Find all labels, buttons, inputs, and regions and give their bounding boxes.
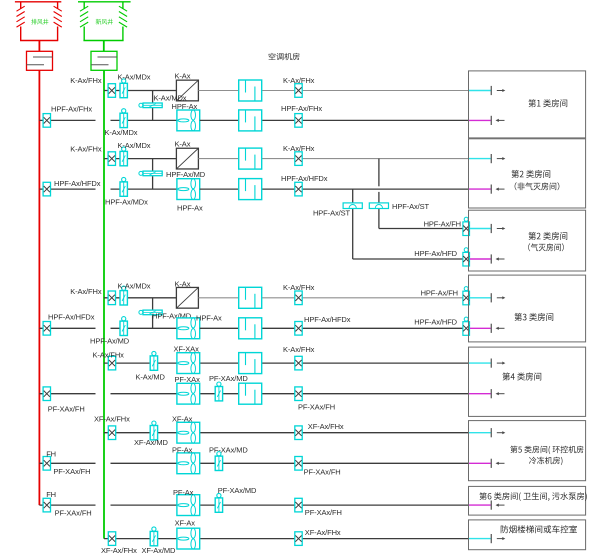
svg-text:HPF-Ax: HPF-Ax	[177, 204, 203, 213]
silencer row1	[239, 80, 262, 101]
exhaust terminal room5	[469, 459, 505, 468]
silencer row4	[239, 179, 262, 200]
svg-text:K-Ax: K-Ax	[175, 72, 191, 81]
svg-text:XF-Ax: XF-Ax	[175, 518, 196, 527]
svg-text:K-Ax/FHx: K-Ax/FHx	[93, 351, 125, 360]
fan PF-Ax system5	[172, 446, 200, 474]
duct row6 after green trunk	[111, 327, 177, 329]
svg-text:K-Ax/FHx: K-Ax/FHx	[283, 345, 315, 354]
svg-text:XF-Ax/FHx: XF-Ax/FHx	[101, 546, 137, 555]
fire damper XF-Ax/FHx row9	[94, 415, 130, 440]
fire damper K-Ax/FHx row5	[70, 287, 115, 305]
duct row6 fan to room	[200, 327, 469, 329]
duct branch to room2b exhaust	[353, 258, 469, 260]
fire damper XF-Ax/FHx row13	[101, 532, 137, 555]
duct row10 red trunk segment	[39, 462, 95, 464]
junction vertical system1	[152, 91, 154, 121]
fan HPF-Ax system1	[172, 102, 200, 131]
supply terminal room5	[469, 428, 506, 437]
svg-text:HPF-Ax/MD: HPF-Ax/MD	[166, 170, 206, 179]
fire damper HPF-Ax/HFD room3 exhaust	[414, 317, 469, 335]
duct row1 K box to room	[198, 90, 468, 92]
svg-text:K-Ax/MD: K-Ax/MD	[136, 373, 166, 382]
fire damper PF-XAx/FH row12 right	[295, 498, 342, 517]
motorised damper XF-Ax/MD row13	[142, 527, 176, 555]
svg-text:HPF-Ax/FHx: HPF-Ax/FHx	[51, 105, 92, 114]
svg-text:PF-XAx/FH: PF-XAx/FH	[48, 405, 85, 414]
duct row3 segment green trunk to K box	[104, 158, 176, 160]
svg-text:PF-XAx/MD: PF-XAx/MD	[209, 374, 248, 383]
duct row7 green trunk to room	[104, 362, 469, 364]
svg-text:HPF-Ax/ST: HPF-Ax/ST	[313, 209, 351, 218]
supply terminal room1	[469, 86, 506, 95]
svg-text:HPF-Ax/FH: HPF-Ax/FH	[424, 220, 461, 229]
fire damper HPF-Ax/FHx row2 right	[281, 104, 322, 127]
motorised damper XF-Ax/MD row9	[134, 421, 168, 447]
svg-text:K-Ax/MDx: K-Ax/MDx	[118, 141, 151, 150]
motorised damper HPF-Ax/MD on junction system2	[139, 170, 206, 179]
motorised damper PF-XAx/MD row10	[209, 446, 248, 471]
silencer row7	[239, 353, 262, 374]
motorised damper K-Ax/MDx row5	[118, 282, 151, 306]
duct row10 after green trunk	[111, 462, 469, 464]
duct row9 green trunk to room	[104, 432, 469, 434]
fire damper PF-XAx/FH row10 right	[295, 457, 341, 477]
svg-text:K-Ax/FHx: K-Ax/FHx	[283, 144, 315, 153]
room2a box	[469, 139, 586, 208]
svg-text:K-Ax/FHx: K-Ax/FHx	[283, 76, 315, 85]
duct row3 K box to room	[198, 158, 468, 160]
svg-text:K-Ax/MDx: K-Ax/MDx	[105, 128, 138, 137]
branch vertical from row3	[378, 159, 380, 229]
silencer row8	[239, 383, 262, 404]
exhaust terminal room4	[469, 389, 505, 398]
fire damper PF-XAx/FH row8 right	[295, 387, 335, 412]
silencer row2	[239, 110, 262, 131]
svg-text:PF-Ax: PF-Ax	[172, 446, 193, 455]
label room4	[502, 372, 541, 380]
supply terminal room2a	[469, 154, 506, 163]
duct row2 red trunk segment	[39, 119, 95, 121]
motorised damper K-Ax/MDx row2	[105, 109, 138, 137]
exhaust terminal room2a	[469, 185, 505, 194]
fire damper HPF-Ax/HFDx row4 left	[43, 179, 101, 196]
label room2a	[511, 170, 559, 190]
svg-text:FH: FH	[46, 449, 56, 458]
ST damper HPF-Ax/ST right	[369, 202, 429, 211]
duct row13 green trunk to room	[104, 538, 469, 540]
fire damper HPF-Ax/FHx row2 left	[43, 105, 92, 128]
svg-text:PF-XAx/FH: PF-XAx/FH	[55, 509, 92, 518]
red exhaust trunk	[38, 70, 40, 505]
label room2b	[528, 232, 567, 251]
fire damper HPF-Ax/HFDx row6 right	[295, 315, 351, 335]
svg-text:HPF-Ax/HFDx: HPF-Ax/HFDx	[54, 179, 101, 188]
svg-text:HPF-Ax/HFDx: HPF-Ax/HFDx	[304, 315, 351, 324]
svg-text:HPF-Ax/HFDx: HPF-Ax/HFDx	[48, 313, 95, 322]
room7 box	[469, 520, 586, 550]
fire damper HPF-Ax/FH room3 supply	[421, 287, 470, 305]
svg-text:K-Ax: K-Ax	[175, 140, 191, 149]
motorised damper K-Ax/MDx on junction system1	[139, 94, 187, 108]
motorised damper K-Ax/MD row7	[136, 351, 166, 381]
motorised damper K-Ax/MDx row3	[118, 141, 151, 166]
svg-text:K-Ax/MDx: K-Ax/MDx	[118, 282, 151, 291]
svg-text:HPF-Ax/MDx: HPF-Ax/MDx	[105, 198, 148, 207]
duct row4 red trunk segment	[39, 188, 95, 190]
duct row8 after green trunk	[111, 393, 469, 395]
svg-text:XF-Ax/MD: XF-Ax/MD	[134, 438, 168, 447]
fire damper HPF-Ax/HFDx row6 left	[43, 313, 95, 336]
duct row2 after green trunk	[111, 119, 177, 121]
fan HPF-Ax system3	[177, 314, 222, 339]
label room5	[510, 446, 583, 465]
svg-text:HPF-Ax: HPF-Ax	[172, 102, 198, 111]
label room1	[528, 99, 567, 107]
svg-text:K-Ax/FHx: K-Ax/FHx	[70, 145, 102, 154]
svg-text:PF-Ax: PF-Ax	[173, 488, 194, 497]
fire damper K-Ax/FHx row1	[70, 76, 115, 97]
silencer box on exhaust shaft	[27, 51, 53, 70]
label machine room	[269, 53, 300, 60]
fan PF-XAx system4	[175, 375, 201, 404]
fire damper FH row12 left	[43, 490, 92, 518]
exhaust terminal room3	[470, 324, 505, 333]
room5 box	[469, 421, 586, 481]
svg-text:PF-XAx/FH: PF-XAx/FH	[298, 403, 335, 412]
green fresh-air trunk	[103, 70, 105, 538]
svg-text:XF-Ax: XF-Ax	[172, 415, 193, 424]
svg-text:K-Ax/FHx: K-Ax/FHx	[283, 283, 315, 292]
supply terminal room3	[470, 293, 505, 302]
svg-text:XF-Ax/MD: XF-Ax/MD	[142, 546, 176, 555]
svg-text:XF-XAx: XF-XAx	[174, 345, 200, 354]
room1 box	[469, 71, 586, 138]
silencer box on fresh-air shaft	[91, 51, 117, 70]
supply terminal room4	[469, 359, 506, 368]
fire damper HPF-Ax/HFD room2b exhaust	[414, 248, 469, 266]
label room7	[501, 525, 577, 533]
fan PF-Ax system6	[173, 488, 200, 516]
svg-text:HPF-Ax/MD: HPF-Ax/MD	[90, 337, 130, 346]
AHU box K-Ax system2	[175, 140, 199, 169]
fire damper K-Ax/FHx row5 right	[283, 283, 315, 305]
duct row1 segment green trunk to K box	[104, 90, 176, 92]
supply terminal room2b	[470, 224, 505, 233]
duct row6 red trunk segment	[39, 327, 95, 329]
fire damper HPF-Ax/HFDx row4 right	[281, 174, 328, 196]
svg-text:PF-XAx/MD: PF-XAx/MD	[209, 446, 248, 455]
svg-text:K-Ax/MDx: K-Ax/MDx	[118, 73, 151, 82]
ST damper HPF-Ax/ST left	[313, 203, 362, 218]
motorised damper PF-XAx/MD row12	[215, 486, 257, 512]
fan XF-Ax system5	[172, 415, 200, 444]
duct branch to room2b supply	[379, 228, 469, 230]
label room6	[479, 492, 586, 501]
duct row12 red trunk segment	[39, 504, 95, 506]
svg-text:HPF-Ax/ST: HPF-Ax/ST	[392, 202, 430, 211]
duct row2 fan to room	[200, 119, 469, 121]
svg-text:FH: FH	[46, 490, 56, 499]
svg-text:HPF-Ax: HPF-Ax	[196, 314, 222, 323]
fire damper K-Ax/FHx row3 right	[283, 144, 315, 165]
svg-text:K-Ax/FHx: K-Ax/FHx	[70, 76, 102, 85]
AHU box K-Ax system3	[175, 280, 199, 309]
svg-text:HPF-Ax/HFD: HPF-Ax/HFD	[414, 249, 457, 258]
fire damper K-Ax/FHx row1 right	[283, 76, 315, 97]
room4 box	[469, 347, 586, 416]
svg-text:PF-XAx/FH: PF-XAx/FH	[304, 467, 341, 476]
fire damper K-Ax/FHx row7 right	[283, 345, 315, 370]
silencer row5	[239, 287, 262, 308]
fire damper XF-Ax/FHx row13 right	[295, 528, 341, 546]
fire damper XF-Ax/FHx row9 right	[295, 422, 344, 440]
fan XF-Ax system7	[175, 518, 200, 549]
fire damper FH row10 left	[43, 449, 90, 476]
exhaust terminal room1	[469, 116, 505, 125]
junction vertical system3	[152, 298, 154, 329]
exhaust terminal room2b	[470, 254, 505, 263]
duct row5 K box to room	[198, 297, 468, 299]
svg-text:XF-Ax/FHx: XF-Ax/FHx	[308, 422, 344, 431]
exhaust terminal room6	[469, 501, 505, 510]
junction vertical system2	[152, 159, 154, 190]
svg-text:K-Ax: K-Ax	[175, 280, 191, 289]
fire damper K-Ax/FHx row3	[70, 145, 115, 166]
svg-text:K-Ax/FHx: K-Ax/FHx	[70, 287, 102, 296]
svg-text:XF-Ax/FHx: XF-Ax/FHx	[305, 528, 341, 537]
motorised damper HPF-Ax/MDx row4	[105, 177, 148, 206]
duct row8 red trunk segment	[39, 393, 95, 395]
motorised damper K-Ax/MDx row1	[118, 73, 151, 98]
fire damper HPF-Ax/FH room2b supply	[424, 217, 470, 235]
supply terminal room7	[469, 534, 506, 543]
svg-text:HPF-Ax/HFD: HPF-Ax/HFD	[414, 318, 457, 327]
fan HPF-Ax system2	[177, 179, 203, 213]
svg-text:PF-XAx/FH: PF-XAx/FH	[53, 467, 90, 476]
svg-text:PF-XAx/MD: PF-XAx/MD	[218, 486, 257, 495]
duct row4 fan to room	[200, 188, 469, 190]
svg-text:HPF-Ax/HFDx: HPF-Ax/HFDx	[281, 174, 328, 183]
fire damper PF-XAx/FH row8 left	[43, 387, 85, 414]
fire damper K-Ax/FHx row7	[93, 351, 125, 370]
silencer row3	[239, 148, 262, 169]
exhaust shaft funnel (red)	[15, 2, 62, 52]
duct row5 segment green trunk to K box	[104, 297, 176, 299]
duct row4 after green trunk	[111, 188, 177, 190]
svg-text:PF-XAx/FH: PF-XAx/FH	[305, 508, 342, 517]
AHU box K-Ax system1	[175, 72, 199, 101]
room2b box	[469, 210, 586, 271]
fan XF-XAx system4	[174, 345, 200, 374]
fresh-air shaft funnel (green)	[78, 2, 131, 52]
room3 box	[469, 275, 586, 342]
svg-text:XF-Ax/FHx: XF-Ax/FHx	[94, 415, 130, 424]
silencer row6	[239, 318, 262, 339]
label room3	[514, 313, 553, 321]
svg-text:PF-XAx: PF-XAx	[175, 375, 201, 384]
motorised damper HPF-Ax/MD row6	[90, 317, 130, 346]
room6 box	[469, 486, 586, 515]
svg-text:HPF-Ax/FHx: HPF-Ax/FHx	[281, 104, 322, 113]
branch vertical from row4	[352, 189, 354, 259]
svg-text:HPF-Ax/FH: HPF-Ax/FH	[421, 289, 458, 298]
motorised damper PF-XAx/MD row8	[209, 374, 248, 401]
motorised damper HPF-Ax/MD on junction system3	[139, 310, 192, 320]
duct row12 after green trunk	[111, 504, 469, 506]
